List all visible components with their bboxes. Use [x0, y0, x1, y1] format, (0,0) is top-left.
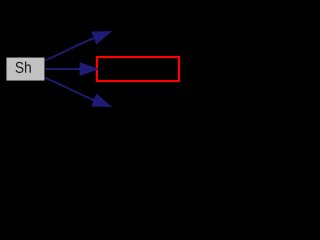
arrowhead bottom — [93, 95, 110, 106]
node Sh (gray box) — [6, 57, 45, 81]
wire: middle edge shaft — [45, 68, 80, 70]
wire: top edge spline — [45, 38, 94, 60]
arrowhead top — [93, 32, 110, 43]
label Sh : letter S — [16, 62, 24, 73]
wire: bottom edge spline — [45, 78, 94, 100]
label Sh : letter h — [25, 61, 31, 72]
arrowhead middle — [81, 63, 97, 74]
node (red box) — [97, 57, 179, 81]
